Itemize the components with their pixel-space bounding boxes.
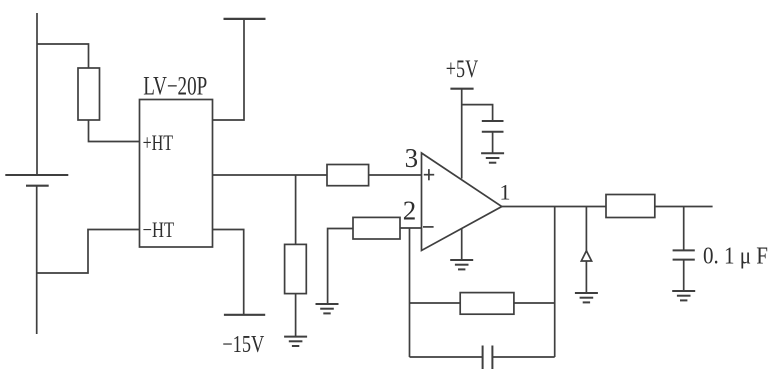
- svg-text:+HT: +HT: [143, 130, 174, 155]
- svg-text:+5V: +5V: [446, 56, 478, 83]
- svg-text:3: 3: [405, 143, 419, 173]
- svg-text:−15V: −15V: [222, 332, 265, 358]
- svg-text:0. 1 μ F: 0. 1 μ F: [703, 244, 768, 270]
- svg-text:1: 1: [500, 179, 511, 204]
- svg-text:LV−20P: LV−20P: [143, 72, 207, 101]
- svg-text:−HT: −HT: [143, 217, 175, 242]
- svg-text:2: 2: [403, 196, 417, 226]
